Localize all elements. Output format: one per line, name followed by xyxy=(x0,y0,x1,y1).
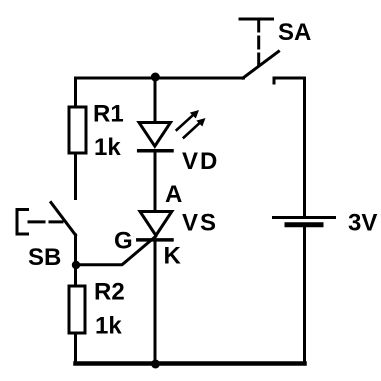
wire VS to bottom xyxy=(154,240,157,364)
wire right upper xyxy=(303,78,306,216)
wire gate node to R2 xyxy=(74,265,77,286)
node gate junction xyxy=(72,261,80,269)
pushbutton SB actuator bracket xyxy=(17,210,28,235)
svg-text:VD: VD xyxy=(182,148,219,175)
thyristor VS cathode bar xyxy=(138,238,172,242)
node top junction xyxy=(151,73,160,82)
thyristor VS triangle xyxy=(140,212,172,236)
wire right lower xyxy=(303,227,306,364)
svg-text:1k: 1k xyxy=(94,134,121,161)
svg-text:R2: R2 xyxy=(94,279,125,306)
wire top horizontal xyxy=(76,77,244,80)
wire LED to VS xyxy=(154,153,157,212)
switch SA lever xyxy=(243,52,279,79)
wire left top xyxy=(74,78,77,107)
svg-text:SB: SB xyxy=(28,244,61,271)
svg-text:SA: SA xyxy=(278,19,311,46)
resistor R2 xyxy=(69,286,85,333)
svg-text:A: A xyxy=(165,181,182,208)
node bottom junction xyxy=(151,360,160,369)
svg-text:R1: R1 xyxy=(93,101,124,128)
switch SA actuator dashed link xyxy=(257,37,260,66)
switch SA actuator bar xyxy=(240,18,273,21)
pushbutton SB lever xyxy=(51,203,76,236)
LED VD cathode bar xyxy=(139,149,172,153)
resistor R1 xyxy=(69,107,86,153)
LED VD triangle xyxy=(139,123,171,147)
switch SA actuator stem xyxy=(257,19,260,31)
svg-text:G: G xyxy=(114,228,133,255)
LED VD light arrow 1 xyxy=(177,110,199,130)
svg-text:3V: 3V xyxy=(348,210,377,237)
svg-text:K: K xyxy=(164,243,182,270)
wire bottom horizontal xyxy=(76,361,305,366)
wire gate xyxy=(76,237,156,265)
svg-text:VS: VS xyxy=(182,210,218,237)
switch SA fixed contact xyxy=(274,78,305,83)
wire R2 to bottom xyxy=(74,333,77,364)
LED VD light arrow 2 xyxy=(184,118,206,138)
wire SB to gate node xyxy=(74,235,77,265)
pushbutton SB dashed link xyxy=(29,220,62,223)
wire center top xyxy=(154,78,157,123)
battery GB positive plate xyxy=(274,216,335,219)
battery GB negative plate xyxy=(287,222,321,227)
svg-text:1k: 1k xyxy=(95,313,122,340)
wire R1 to SB xyxy=(74,153,77,199)
